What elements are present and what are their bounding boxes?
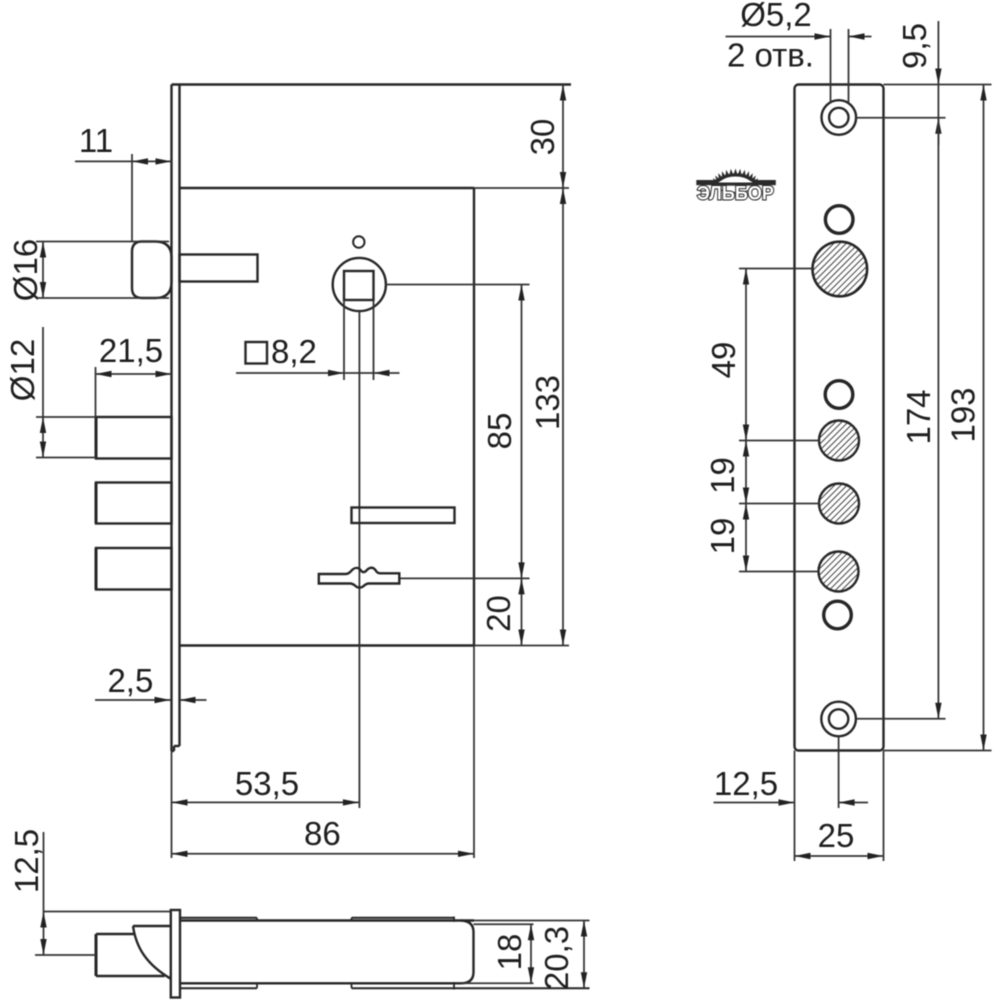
latch bolt head [132,242,172,299]
hole center extension top [856,117,946,119]
spindle square extension lines [343,300,345,380]
body inner top extension [474,923,534,925]
dimension 12,5 right view [714,737,869,809]
small hole 3 [824,601,852,629]
lock body bottom edge [180,644,475,646]
faceplate bar [171,910,180,998]
svg-text:25: 25 [818,817,855,854]
deadbolt pin 3 [96,548,172,590]
dimension 30 [562,85,564,189]
lock body top edge [172,83,572,85]
screw hole top [822,100,857,135]
dimension 174 [937,118,939,719]
body top line [180,919,474,921]
dimension D16 [36,242,169,299]
faceplate side section [172,85,180,752]
body bottom seam segments [180,987,257,989]
svg-text:18: 18 [491,934,528,971]
svg-text:30: 30 [524,119,561,156]
small hole 1 [825,206,853,234]
svg-text:19: 19 [704,518,741,555]
svg-text:2 отв.: 2 отв. [727,37,814,74]
svg-text:21,5: 21,5 [99,332,163,369]
hatched hole 4 [819,552,859,592]
svg-text:86: 86 [304,815,341,852]
svg-text:Ø16: Ø16 [7,239,44,301]
svg-text:12,5: 12,5 [8,829,45,893]
white lens under arch [714,185,758,192]
vertical center line [358,311,360,808]
MAIN-VIEW [4,85,571,859]
svg-text:20,3: 20,3 [538,926,575,990]
faceplate front [795,85,884,751]
dimension 20 [521,578,523,645]
horizontal line from key to 20-dim [401,577,530,579]
dimension 86 [172,853,475,855]
dimension 11 [75,154,172,242]
dimension 85 [521,285,523,579]
svg-text:174: 174 [900,389,937,444]
hole center extension bottom [856,718,946,720]
dimension D12 [36,327,96,458]
small pin dot above spindle [353,236,364,247]
dimensions 49 / 19 / 19 [739,269,819,572]
svg-text:11: 11 [79,122,113,159]
faceplate bottom extension line [171,751,173,858]
RIGHT-VIEW [696,0,991,861]
deadbolt pin 2 [96,483,172,524]
svg-text:9,5: 9,5 [896,23,933,69]
dimension 53,5 [172,801,359,803]
dimension 18 [530,924,532,983]
svg-text:12,5: 12,5 [714,765,778,802]
latch bevel curve [133,926,171,979]
dimension 21,5 [96,367,172,417]
seam ticks [257,917,454,990]
dimension 12,5 [35,832,171,955]
svg-text:Ø12: Ø12 [4,339,41,401]
svg-text:19: 19 [704,457,741,494]
hatched hole 2 [819,421,859,461]
dimension D5,2 2 holes [726,29,872,103]
latch head top line [133,925,171,927]
svg-text:85: 85 [481,413,518,450]
svg-text:8,2: 8,2 [271,333,317,370]
BOTTOM-VIEW [8,829,590,998]
svg-text:2,5: 2,5 [107,662,153,699]
svg-text:20: 20 [480,595,517,632]
svg-text:133: 133 [529,375,566,430]
latch stem bottom segment to bevel [96,975,165,977]
body bottom line [180,982,461,984]
lock body inner top line [180,187,475,189]
ELBOR logo [696,169,776,205]
bar with arch [696,180,776,185]
body top seam segments [180,917,257,919]
svg-text:ЭЛЬБОР: ЭЛЬБОР [697,183,774,205]
latch bolt tail [180,255,258,282]
dimension 25 [795,751,884,862]
big hatched hole [813,242,868,297]
hatched hole 3 [819,484,859,524]
dimension 133 [562,188,564,646]
small hole 2 [825,381,853,409]
screw hole bottom [821,702,856,737]
sunburst teeth [711,169,760,184]
spindle circle [333,258,386,311]
dimension 2,5 [95,699,207,701]
svg-text:53,5: 53,5 [235,765,299,802]
deadbolt pin 1 [96,417,172,459]
spindle square hole [344,271,374,300]
svg-text:193: 193 [945,387,982,442]
latch stem [96,933,134,935]
dimension 193 [884,85,992,751]
body right edge rounded [461,921,474,984]
svg-text:49: 49 [705,342,742,379]
lock body right edge [473,188,475,646]
middle slot rectangle [352,508,455,524]
dimension 9,5 [937,21,939,145]
horizontal line from spindle to 85-dim [386,284,530,286]
dimension square 8,2 [236,372,400,374]
key profile [319,568,400,588]
svg-text:Ø5,2: Ø5,2 [740,0,812,33]
dimension 20,3 [583,921,585,989]
